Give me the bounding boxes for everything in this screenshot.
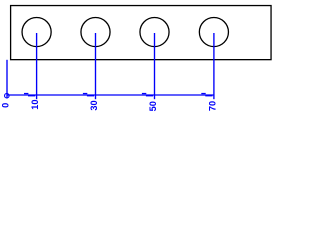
svg-text:0: 0 [0, 103, 10, 108]
svg-text:10: 10 [30, 99, 40, 109]
svg-text:30: 30 [89, 100, 99, 110]
svg-text:50: 50 [148, 101, 158, 111]
svg-text:70: 70 [207, 101, 217, 111]
